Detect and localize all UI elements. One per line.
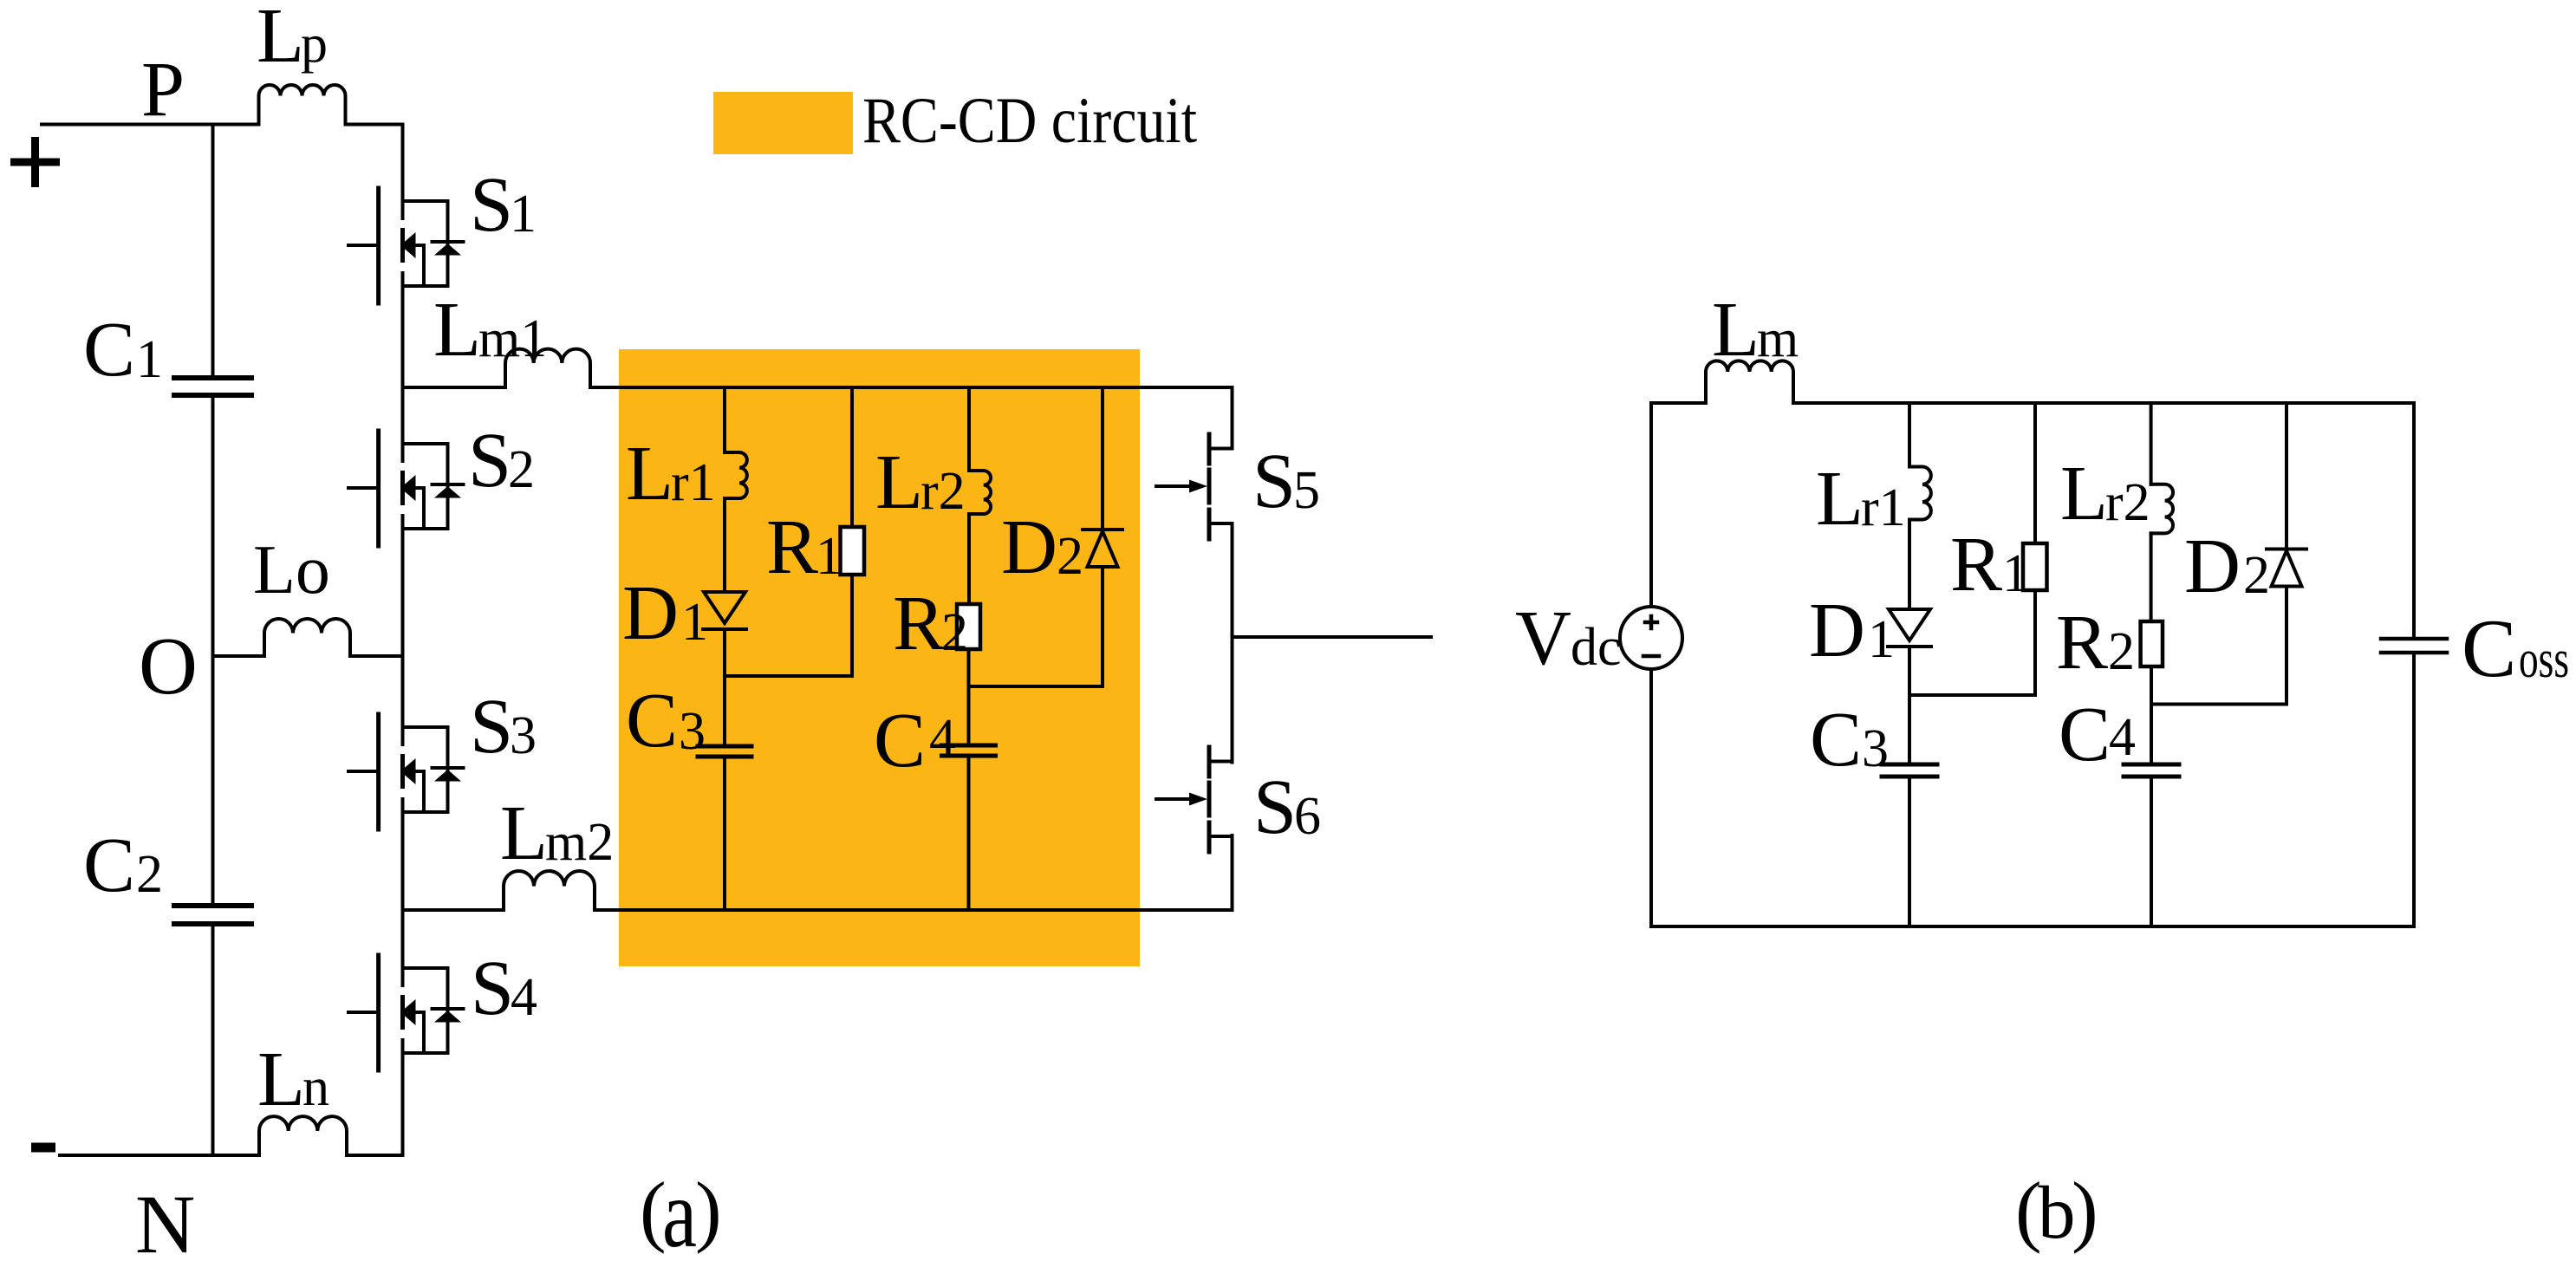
plus terminal — [10, 137, 60, 187]
svg-text:1: 1 — [2002, 544, 2029, 603]
wire P to C1 — [211, 125, 215, 379]
svg-text:m1: m1 — [478, 309, 547, 368]
capacitor C1 — [174, 378, 251, 395]
wire Lm2 to S6 (bottom bus) — [595, 908, 1233, 912]
svg-text:): ) — [2072, 1166, 2098, 1254]
inductor Lr1 — [725, 452, 747, 498]
diode D1 — [704, 592, 745, 623]
transistor S1 body diode — [433, 240, 464, 244]
output wire — [1233, 635, 1432, 639]
transistor S3 body diode — [433, 766, 464, 770]
svg-text:1: 1 — [816, 527, 842, 586]
svg-text:N: N — [135, 1178, 195, 1261]
branch wire R1 — [850, 387, 854, 527]
svg-text:r1: r1 — [1861, 478, 1906, 537]
svg-text:L: L — [257, 0, 304, 79]
svg-text:n: n — [302, 1058, 329, 1117]
diode D2 — [1083, 528, 1122, 531]
svg-text:2: 2 — [941, 603, 968, 662]
b: branch Lr2/R2/C4 — [2150, 403, 2153, 484]
svg-text:S: S — [470, 162, 513, 248]
svg-text:dc: dc — [1571, 618, 1622, 677]
svg-text:L: L — [626, 431, 673, 517]
svg-text:L: L — [2060, 451, 2108, 536]
transistor S5 channel — [1207, 434, 1212, 539]
node N / bottom wire — [60, 1154, 259, 1157]
capacitor Coss — [2381, 639, 2447, 653]
svg-text:RC-CD circuit: RC-CD circuit — [862, 85, 1197, 157]
resistor R2 (b) — [2141, 621, 2163, 666]
transistor S1 gate — [376, 188, 381, 303]
svg-text:D: D — [2184, 523, 2241, 609]
inductor Lr2 (b) — [2151, 484, 2173, 534]
svg-text:L: L — [1816, 456, 1864, 542]
S6 source stub — [1231, 835, 1234, 910]
svg-text:D: D — [1809, 588, 1865, 673]
wire S5 source to S6 drain — [1231, 523, 1234, 763]
svg-text:O: O — [139, 621, 198, 712]
svg-text:1: 1 — [136, 330, 163, 389]
svg-text:3: 3 — [510, 706, 537, 765]
svg-text:R: R — [1950, 522, 2002, 608]
inductor Lp — [259, 85, 346, 125]
capacitor C3 — [698, 746, 751, 757]
branch wire D2 — [1101, 387, 1104, 530]
transistor S4 channel and leads — [400, 998, 405, 1028]
wire C2 to bottom rail — [211, 924, 215, 1155]
wire node O / Lo lead — [213, 654, 265, 658]
diode D1 (b) — [1889, 609, 1930, 640]
svg-text:6: 6 — [1294, 787, 1321, 846]
svg-text:C: C — [874, 698, 926, 783]
transistor S4 gate — [376, 955, 381, 1070]
capacitor C2 — [174, 906, 251, 924]
inductor Lm — [1706, 361, 1793, 403]
svg-text:2: 2 — [136, 845, 163, 904]
wire Ln to S4 — [347, 1154, 403, 1157]
minus terminal — [31, 1143, 55, 1153]
branch wire Lr2/R2/C4 — [967, 387, 971, 471]
svg-text:R: R — [2056, 600, 2108, 686]
svg-text:C: C — [83, 307, 135, 393]
svg-text:r2: r2 — [920, 462, 966, 521]
svg-text:S: S — [1253, 764, 1297, 850]
S5 drain stub — [1231, 387, 1234, 449]
transistor S4 body diode — [433, 1007, 464, 1011]
svg-text:D: D — [622, 570, 679, 656]
b: left edge wire — [1649, 403, 1653, 607]
svg-text:r2: r2 — [2105, 473, 2150, 532]
svg-text:3: 3 — [679, 702, 706, 761]
source Vdc — [1620, 607, 1682, 669]
wire node O to C2 — [211, 656, 215, 906]
diode D2 (b) — [2267, 548, 2306, 551]
svg-text:2: 2 — [1057, 527, 1083, 586]
transistor S2 gate — [376, 431, 381, 546]
transistor S2 body arrow — [400, 475, 416, 501]
svg-text:5: 5 — [1293, 461, 1320, 520]
svg-text:S: S — [471, 946, 514, 1031]
b: left edge wire below Vdc — [1649, 669, 1653, 926]
wire junction A to Lm1 — [403, 386, 506, 389]
svg-text:m2: m2 — [545, 813, 614, 872]
svg-text:m: m — [1757, 309, 1799, 368]
wire Lp to S1 — [346, 123, 403, 127]
b: right edge wire — [2412, 403, 2416, 639]
transistor S3 channel and leads — [400, 757, 405, 787]
transistor S2 channel and leads — [400, 473, 405, 504]
b: wire R1 to D1/C3 node — [1909, 693, 2035, 697]
svg-text:L: L — [433, 287, 481, 373]
svg-text:R: R — [766, 504, 818, 590]
svg-text:C: C — [2059, 692, 2111, 777]
transistor S5 drain/source leads — [1209, 449, 1233, 524]
svg-text:1: 1 — [510, 185, 537, 244]
main switch column wire — [401, 125, 405, 1156]
inductor Lm1 — [505, 349, 590, 387]
svg-text:4: 4 — [511, 968, 537, 1027]
svg-text:L: L — [257, 1037, 305, 1122]
svg-text:P: P — [141, 47, 185, 133]
b: branch R1 — [2033, 403, 2037, 543]
inductor Lr1 (b) — [1909, 467, 1931, 520]
svg-text:b: b — [2038, 1170, 2076, 1254]
transistor S6 drain/source leads — [1209, 762, 1233, 837]
transistor S6 channel — [1207, 747, 1212, 852]
inductor Lo — [264, 619, 350, 656]
svg-text:3: 3 — [1862, 719, 1889, 778]
wire C1 to node O — [211, 395, 215, 656]
inductor Ln — [259, 1116, 347, 1155]
svg-text:C: C — [2462, 602, 2516, 694]
svg-text:C: C — [83, 822, 135, 908]
resistor R1 (b) — [2023, 543, 2047, 590]
resistor R1 — [841, 527, 865, 575]
b: top bus left — [1651, 401, 1706, 405]
svg-text:S: S — [468, 418, 511, 504]
transistor S4 body arrow — [400, 999, 416, 1025]
svg-text:C: C — [1810, 697, 1862, 783]
svg-text:D: D — [1001, 504, 1057, 590]
transistor S5 gate arrow — [1156, 484, 1192, 488]
transistor S1 body arrow — [400, 232, 416, 258]
wire Lo to S2/S3 junction — [350, 654, 403, 658]
b: branch Lr1/D1/C3 — [1908, 403, 1911, 467]
svg-text:L: L — [1712, 287, 1760, 373]
svg-text:4: 4 — [929, 709, 956, 768]
svg-text:L: L — [500, 790, 548, 876]
svg-text:L: L — [875, 439, 923, 525]
transistor S2 body diode — [433, 483, 464, 486]
svg-text:Lo: Lo — [253, 532, 330, 608]
legend swatch: RC-CD circuit — [713, 92, 853, 154]
transistor S6 gate arrow — [1156, 797, 1192, 801]
svg-text:2: 2 — [2243, 546, 2270, 605]
inductor Lr2 — [969, 471, 991, 514]
transistor S3 gate — [376, 714, 381, 829]
svg-text:p: p — [301, 15, 328, 74]
svg-text:C: C — [626, 678, 678, 764]
wire R2/C4 node to D2 — [969, 685, 1103, 688]
svg-text:1: 1 — [1868, 610, 1895, 669]
svg-text:a: a — [662, 1160, 697, 1261]
svg-text:2: 2 — [2108, 622, 2135, 681]
RC-CD highlight box — [619, 349, 1140, 966]
svg-text:S: S — [1252, 439, 1296, 524]
svg-text:V: V — [1515, 595, 1571, 681]
transistor S3 body arrow — [400, 758, 416, 784]
branch wire Lr1/D1/C3 — [723, 387, 726, 452]
svg-text:S: S — [470, 684, 513, 770]
b: top bus right — [1793, 401, 2414, 405]
wire junction C to Lm2 — [403, 908, 504, 912]
capacitor C3 (b) — [1882, 764, 1937, 777]
resistor R2 — [957, 604, 980, 649]
svg-text:r1: r1 — [671, 453, 716, 512]
node P / top wire — [42, 123, 259, 127]
svg-text:1: 1 — [681, 593, 708, 652]
capacitor C4 — [942, 745, 996, 756]
transistor S1 channel and leads — [400, 231, 405, 261]
wire Lm1 to S5 (top bus) — [590, 386, 1233, 389]
svg-text:oss: oss — [2519, 630, 2569, 689]
svg-text:): ) — [695, 1166, 722, 1254]
capacitor C4 (b) — [2124, 764, 2179, 777]
b: branch D2 — [2285, 403, 2288, 549]
b: bottom bus — [1651, 925, 2412, 928]
svg-text:R: R — [893, 581, 945, 666]
inductor Lm2 — [504, 871, 595, 910]
wire R1 to D1/C3 node — [725, 674, 852, 678]
b: wire R2/C4 node to D2 — [2151, 703, 2287, 706]
svg-text:4: 4 — [2109, 708, 2136, 767]
svg-text:2: 2 — [508, 440, 535, 499]
